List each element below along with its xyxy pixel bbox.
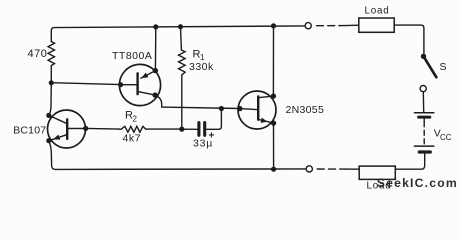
- capacitor C1 right plate: [203, 123, 206, 136]
- Q3 collector blob: [271, 93, 276, 98]
- switch pivot dot: [421, 54, 426, 59]
- Q1 base blob: [83, 126, 88, 131]
- switch S blade: [424, 56, 437, 77]
- svg-text:BC107: BC107: [13, 124, 46, 136]
- load box top: [359, 18, 394, 32]
- transistor Q2 TT800A circle: [119, 64, 160, 105]
- Q1 base lead inside: [68, 127, 85, 129]
- Q1 emitter arrowhead: [53, 135, 60, 140]
- svg-text:Load: Load: [365, 5, 390, 16]
- wire Q2 emitter up to top rail: [154, 27, 156, 71]
- battery B1 cell2 thin plate: [414, 145, 433, 147]
- Q1 collector lead: [49, 115, 67, 123]
- battery B1 cell1 thin plate: [414, 112, 433, 114]
- svg-text:470: 470: [28, 48, 48, 60]
- node B dot (R1/R2/C1): [179, 127, 184, 132]
- wire switch lower terminal to battery: [422, 92, 424, 112]
- wire dashes to bottom load box: [345, 168, 359, 170]
- resistor 470 (zigzag): [48, 42, 54, 66]
- connector open circle bottom rail: [306, 166, 312, 172]
- Q3 emitter arrowhead: [261, 118, 268, 123]
- capacitor C1 left plate: [197, 123, 200, 136]
- battery B1 cell1 thick plate: [419, 116, 430, 119]
- node rail/TT800A dot: [153, 24, 158, 29]
- Q2 emitter lead (to top, PNP arrow toward bar): [141, 71, 156, 79]
- battery dashed middle: [423, 122, 425, 145]
- Q1 base bar: [66, 119, 68, 139]
- Q3 collector lead: [258, 96, 273, 98]
- wire R2 to node B: [146, 128, 182, 130]
- wire BC107 base row to R2: [86, 127, 120, 130]
- Q2 base bar: [136, 73, 138, 94]
- svg-text:2N3055: 2N3055: [286, 104, 325, 116]
- wire Q3 collector to top rail: [272, 26, 274, 96]
- wire to top load box: [345, 24, 359, 26]
- Q3 base bar: [257, 96, 259, 119]
- Q2 collector blob: [152, 92, 157, 97]
- wire dashed top: [317, 25, 346, 27]
- svg-text:S: S: [440, 61, 447, 73]
- svg-text:2: 2: [133, 114, 138, 123]
- wire Q2 collector bend down to emitter-row: [155, 95, 162, 107]
- battery B1 cell2 thick plate: [419, 150, 430, 153]
- node bottom rail/2N3055 dot: [271, 167, 276, 172]
- node C dot (C1/emitter row): [219, 106, 224, 111]
- svg-text:SeekIC.com: SeekIC.com: [377, 176, 458, 190]
- transistor Q3 2N3055 circle: [238, 91, 276, 129]
- svg-text:330k: 330k: [189, 61, 214, 73]
- wire battery to bottom right corner and into load box: [395, 154, 424, 170]
- Q2 base lead inside: [121, 84, 137, 86]
- resistor R1 vertical: top wire, zigzag, bottom wire: [180, 27, 183, 50]
- Q1 collector blob: [46, 113, 51, 118]
- wire dashed bottom: [317, 168, 345, 170]
- Q2 base blob: [118, 82, 123, 87]
- wire node A to TT800A base: [51, 83, 120, 85]
- svg-text:4k7: 4k7: [123, 133, 141, 145]
- connector open circle switch lower: [420, 86, 426, 92]
- Q3 emitter lead: [258, 119, 273, 123]
- wire 470 bottom to node A: [50, 66, 52, 83]
- node A dot (470/base/BC107): [49, 80, 54, 85]
- svg-text:+: +: [209, 131, 215, 142]
- resistor R2 (zigzag): [120, 126, 146, 132]
- node rail/R1 dot: [178, 24, 183, 29]
- Q2 emitter blob: [153, 68, 158, 73]
- Q3 base blob: [237, 106, 242, 111]
- Q2 collector lead (to bottom right): [139, 92, 155, 95]
- wire load box to right corner, down to switch: [394, 25, 424, 53]
- transistor Q1 BC107 circle: [48, 110, 86, 148]
- Q3 base lead inside: [240, 109, 257, 110]
- Q1 emitter blob: [46, 138, 51, 143]
- Q3 emitter blob: [271, 120, 276, 125]
- wire BC107 emitter to bottom rail corner, bottom rail: [49, 141, 306, 169]
- wire C1 right plate L-bend up to node C: [206, 109, 221, 130]
- wire Q3 emitter to bottom rail: [273, 123, 275, 169]
- load box bottom: [359, 166, 395, 179]
- wire emitter-row to 2N3055 base: [162, 107, 240, 108]
- wire node B to capacitor: [182, 128, 198, 130]
- svg-text:CC: CC: [440, 133, 452, 142]
- wire node A down to BC107 collector: [49, 83, 51, 115]
- wire top rail with left corner: [51, 26, 304, 42]
- Q1 emitter lead: [49, 135, 66, 141]
- node rail/2N3055 dot: [271, 23, 276, 28]
- battery stub: [423, 119, 425, 122]
- svg-text:TT800A: TT800A: [112, 50, 152, 62]
- Q2 emitter arrowhead (PNP, toward bar): [141, 73, 148, 78]
- connector open circle top rail: [305, 23, 311, 29]
